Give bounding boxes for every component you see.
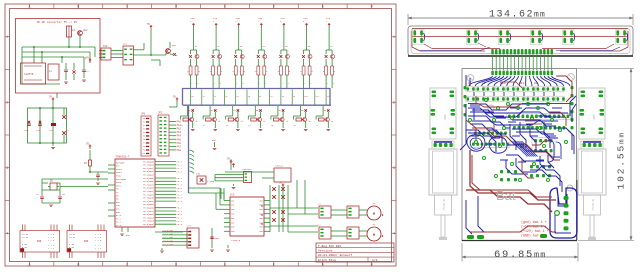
power wire mid top	[134, 23, 167, 56]
diode D10	[72, 63, 75, 80]
optocoupler OK1	[123, 43, 134, 66]
flyback diodes D11-D14	[270, 185, 288, 232]
svg-text:C12: C12	[49, 129, 54, 132]
svg-text:PWR: PWR	[84, 240, 89, 243]
svg-text:p5V: p5V	[172, 44, 177, 47]
connector JP3	[162, 225, 199, 249]
pin header JP2 with pads	[158, 112, 169, 157]
sensor channel LED7	[323, 18, 336, 88]
wires from JP2 to net labels	[169, 121, 181, 152]
svg-text:1k: 1k	[218, 121, 220, 123]
capacitor C30	[210, 228, 220, 251]
svg-text:1k: 1k	[241, 121, 243, 123]
svg-text:100n: 100n	[214, 237, 220, 240]
regulator IC U2	[21, 63, 46, 84]
svg-text:+LED: +LED	[235, 18, 239, 20]
battery connector loop	[550, 188, 577, 238]
IC1 bottom pins	[120, 227, 130, 237]
svg-text:L: L	[214, 83, 215, 85]
svg-text:(+12V) bat 1 +: (+12V) bat 1 +	[521, 229, 549, 233]
dimension 69.85mm	[462, 241, 634, 262]
sensor channel LED1	[187, 18, 200, 88]
svg-text:IC3: IC3	[230, 194, 235, 197]
svg-text:134.62: 134.62	[489, 10, 534, 21]
diode D1	[62, 108, 66, 119]
svg-text:OK1: OK1	[123, 43, 128, 46]
capacitor C10	[24, 121, 31, 132]
bus stub wire	[292, 90, 295, 105]
svg-text:IN2: IN2	[231, 221, 234, 224]
svg-text:7 7 C: 7 7 C	[95, 247, 102, 250]
left mid pad cluster	[472, 132, 509, 146]
svg-text:B2: B2	[234, 110, 236, 112]
svg-text:L: L	[237, 83, 238, 85]
right column pads	[571, 86, 574, 129]
svg-text:p5V: p5V	[85, 56, 90, 59]
wire pair lower	[219, 188, 224, 199]
silk outline left cluster	[470, 130, 510, 148]
driver transistor T5	[271, 106, 288, 131]
svg-text:Erich Styg: Erich Styg	[318, 258, 336, 262]
blue eye loop right	[489, 137, 507, 153]
capacitor bank loop	[28, 108, 67, 143]
svg-text:+LED: +LED	[190, 18, 194, 20]
svg-text:L: L	[191, 83, 192, 85]
mid pad row	[508, 115, 569, 119]
diode D20	[170, 53, 178, 57]
svg-text:L: L	[259, 83, 260, 85]
motor M1 sensor section	[430, 88, 456, 139]
svg-text:B1: B1	[211, 110, 213, 112]
inductor L1	[48, 64, 59, 80]
red mid staircase	[472, 121, 560, 160]
svg-text:P3.3: P3.3	[177, 223, 183, 226]
svg-text:PA4: PA4	[177, 135, 182, 138]
driver transistor T6	[294, 106, 311, 131]
sensor bar bottom pad row	[491, 49, 553, 55]
right mid blue hooks	[548, 140, 561, 162]
power symbol above cap bank	[39, 95, 54, 144]
svg-text:S2: S2	[214, 96, 216, 98]
reset circuit R1	[84, 142, 108, 173]
svg-text:S: S	[333, 83, 334, 85]
sensor pads group	[530, 29, 542, 45]
svg-text:PA5: PA5	[177, 138, 182, 141]
motor driver IC3	[224, 194, 270, 243]
left column pads	[464, 86, 467, 116]
svg-text:S: S	[243, 83, 244, 85]
driver transistor T2	[203, 106, 220, 131]
power symbol above JP2	[169, 95, 178, 107]
svg-text:T4: T4	[248, 125, 250, 127]
svg-text:S: S	[288, 83, 289, 85]
sensor channel LED5	[278, 18, 291, 88]
bus B1 horizontal upper	[183, 88, 331, 90]
driver transistor T4	[248, 106, 265, 131]
bus stub wire	[247, 90, 250, 105]
svg-text:T7: T7	[316, 125, 318, 127]
svg-text:B6: B6	[324, 110, 326, 112]
filter C31	[331, 227, 359, 239]
bus stub wire	[270, 90, 273, 105]
relay K1	[196, 173, 215, 185]
svg-text:C11: C11	[36, 129, 41, 132]
motor M2 gearbox	[584, 195, 601, 215]
motor M2	[359, 223, 383, 241]
motor connector X1	[318, 203, 331, 219]
svg-text:S12: S12	[327, 96, 330, 98]
svg-text:3: 3	[235, 21, 236, 23]
svg-text:S11: S11	[316, 96, 319, 98]
svg-text:S10: S10	[304, 96, 307, 98]
svg-text:L: L	[304, 83, 305, 85]
svg-text:S7: S7	[270, 96, 272, 98]
silk outline mid header	[507, 113, 571, 119]
wires to motor connectors	[270, 180, 318, 232]
svg-text:PA2: PA2	[177, 128, 182, 131]
svg-text:X10: X10	[103, 45, 108, 48]
svg-text:P4: P4	[143, 132, 145, 134]
power symbol near IC2	[227, 157, 232, 170]
svg-text:1k: 1k	[331, 121, 333, 123]
svg-text:1k: 1k	[263, 121, 265, 123]
svg-text:P1: P1	[143, 122, 145, 124]
svg-text:04-01-06Uhr Entwurf: 04-01-06Uhr Entwurf	[318, 253, 352, 257]
svg-text:6: 6	[303, 21, 304, 23]
bus stub wire	[191, 90, 194, 105]
bus stub wire	[281, 90, 284, 105]
svg-text:7: 7	[326, 21, 327, 23]
diagonal trace bundle	[512, 141, 538, 157]
ground inside DC-DC	[64, 80, 86, 83]
title block	[316, 243, 394, 262]
bus stub wire	[202, 90, 205, 105]
svg-text:p9V: p9V	[83, 29, 88, 32]
svg-text:T5: T5	[271, 125, 273, 127]
svg-text:PA8: PA8	[177, 149, 182, 152]
motor M1 connector row	[432, 141, 454, 149]
wires from bus drop to IC3	[189, 188, 225, 209]
crystal Q1	[48, 180, 59, 191]
motor M2 sensor section	[579, 88, 605, 139]
bus stub wire	[315, 90, 319, 105]
svg-text:B4: B4	[279, 110, 281, 112]
silk outlines upper components	[466, 86, 565, 102]
power symbol U4	[230, 161, 235, 168]
svg-text:P2: P2	[143, 125, 145, 127]
DC-DC converter box outline	[16, 19, 101, 94]
svg-text:TS80C51-T: TS80C51-T	[116, 156, 130, 159]
svg-text:Bat: Bat	[496, 188, 516, 203]
wires IC1 right to bus drop	[155, 231, 183, 233]
wire below DC-DC box	[56, 93, 58, 98]
svg-text:0-10mA: 0-10mA	[207, 180, 215, 183]
lower right dip pads	[530, 165, 551, 177]
svg-text:L293D-H: L293D-H	[231, 239, 241, 242]
mounting hole bottom-right	[567, 185, 573, 191]
svg-text:74HC4051: 74HC4051	[242, 168, 252, 171]
svg-text:P10: P10	[142, 153, 145, 155]
transistor Q10	[78, 29, 88, 35]
svg-text:+LED: +LED	[258, 18, 262, 20]
svg-text:PA7: PA7	[177, 145, 182, 148]
svg-text:4: 4	[258, 21, 259, 23]
driver transistor T7	[316, 106, 333, 131]
svg-text:R30: R30	[196, 173, 201, 176]
connector SV2	[67, 225, 107, 259]
silk text Bat	[496, 188, 516, 203]
bus right end elbow	[329, 88, 331, 105]
svg-text:7 7 C: 7 7 C	[48, 247, 55, 250]
mounting hole mid-left	[488, 105, 494, 111]
logic gate IC5	[225, 165, 291, 183]
battery via ring	[555, 211, 560, 216]
microcontroller IC1	[108, 156, 183, 228]
wire net inside DC-DC box	[22, 36, 95, 84]
ground below cap bank	[51, 143, 55, 149]
capacitor C20	[64, 63, 68, 80]
svg-text:S: S	[310, 83, 311, 85]
svg-text:S8: S8	[282, 96, 284, 98]
capacitor C11	[36, 121, 42, 132]
sensor channel LED3	[233, 18, 246, 88]
svg-text:1k: 1k	[196, 121, 198, 123]
ic pads center	[534, 139, 553, 152]
sensor channel LED2	[210, 18, 223, 88]
svg-text:P1.4 DAT: P1.4 DAT	[164, 243, 174, 246]
frame column letters	[5, 4, 396, 266]
svg-text:(GND) bat 2 +: (GND) bat 2 +	[521, 234, 547, 238]
svg-text:PA0: PA0	[177, 121, 182, 124]
bottom left pads	[467, 235, 484, 239]
vias	[469, 99, 568, 182]
svg-text:L: L	[327, 83, 328, 85]
battery wiring labels	[521, 220, 549, 238]
ground below U4	[232, 184, 236, 189]
ground at JP3	[160, 248, 164, 252]
svg-text:B3: B3	[256, 110, 258, 112]
fuse F1	[67, 26, 76, 37]
svg-text:23 BP: 23 BP	[69, 236, 76, 239]
svg-text:1/1: 1/1	[372, 258, 378, 262]
power label p5V	[85, 56, 92, 63]
svg-text:T-Bug.Sch EDL: T-Bug.Sch EDL	[318, 244, 342, 248]
svg-text:+LED: +LED	[213, 18, 217, 20]
schematic frame inner border	[10, 9, 392, 262]
upper component pads row 2	[467, 97, 565, 100]
svg-text:C10: C10	[24, 129, 29, 132]
svg-text:S3: S3	[225, 96, 227, 98]
svg-text:S: S	[197, 83, 198, 85]
bottom copper traces	[460, 75, 576, 234]
svg-text:S9: S9	[293, 96, 295, 98]
mid pad row 2	[513, 126, 565, 130]
svg-text:69.85: 69.85	[494, 249, 534, 261]
component labels silk row	[468, 82, 538, 85]
svg-text:JP3: JP3	[187, 225, 192, 228]
svg-text:T2: T2	[203, 125, 205, 127]
svg-text:DC-DC converter 5V -> 9V: DC-DC converter 5V -> 9V	[37, 20, 78, 24]
svg-text:P9: P9	[143, 150, 145, 152]
dimension 102.55mm	[577, 69, 634, 241]
sensor bar traces	[412, 29, 628, 52]
svg-text:P0: P0	[143, 118, 145, 120]
sensor pads group	[498, 29, 510, 45]
upper component pads row 1	[467, 87, 565, 90]
bus stub wire	[224, 90, 227, 105]
svg-text:GM8: GM8	[443, 114, 446, 119]
svg-text:+LED: +LED	[280, 18, 284, 20]
connector SV1	[20, 225, 60, 259]
driver transistor T1	[181, 106, 198, 131]
svg-text:S6: S6	[259, 96, 261, 98]
bus stub wire	[236, 90, 239, 105]
main board top pad row	[491, 71, 553, 76]
svg-text:mm: mm	[534, 11, 546, 20]
svg-text:PA3: PA3	[177, 131, 182, 134]
svg-text:1k: 1k	[309, 121, 311, 123]
bus B2 horizontal lower	[183, 104, 332, 106]
svg-text:B0: B0	[188, 110, 190, 112]
motor M1 body	[429, 149, 457, 195]
capacitor C5	[58, 190, 65, 203]
ground top middle	[212, 139, 216, 150]
svg-text:23 BP: 23 BP	[22, 236, 29, 239]
sensor pads group	[466, 29, 478, 45]
bottom mid pads	[540, 234, 547, 238]
DC-DC output connector X10	[99, 45, 111, 60]
mounting hole top-right	[568, 74, 575, 81]
capacitor C21	[82, 66, 89, 78]
sensor pads group	[412, 29, 424, 45]
svg-text:+LED: +LED	[326, 18, 330, 20]
svg-text:T3: T3	[226, 125, 228, 127]
sensor pads group	[615, 29, 627, 45]
svg-text:JP2: JP2	[158, 112, 163, 115]
svg-text:P8: P8	[143, 146, 145, 148]
svg-text:1: 1	[190, 21, 191, 23]
svg-text:JP1: JP1	[141, 113, 146, 116]
crystal wires	[42, 179, 108, 206]
svg-text:IN2: IN2	[231, 204, 234, 207]
sensor channel LED6	[300, 18, 313, 88]
short bottom-layer links	[470, 92, 562, 162]
motor M1 gearbox	[435, 195, 452, 215]
battery pads	[564, 196, 569, 230]
filter C30	[331, 206, 359, 218]
motor M2 body	[578, 149, 606, 195]
bus B1 left elbow	[182, 88, 184, 105]
wire to sensor area	[151, 60, 160, 66]
transistor T20	[166, 42, 177, 55]
diode D2	[62, 129, 69, 143]
top copper traces	[466, 76, 572, 232]
svg-text:P6: P6	[143, 139, 145, 141]
svg-text:B5: B5	[301, 110, 303, 112]
svg-text:P0.3(AD3): P0.3(AD3)	[143, 223, 154, 226]
blue eye loop left	[467, 135, 485, 151]
svg-text:PWR: PWR	[37, 240, 42, 243]
svg-text:DC Motor: DC Motor	[591, 199, 594, 212]
motor M2 shaft	[588, 215, 596, 240]
svg-text:1k: 1k	[286, 121, 288, 123]
sensor channel LED4	[255, 18, 268, 88]
bus stub wire	[326, 90, 330, 105]
bus stub wire	[258, 90, 261, 105]
wires bar to main board	[493, 55, 552, 70]
svg-text:P7: P7	[143, 143, 145, 145]
svg-text:+LED: +LED	[303, 18, 307, 20]
motor M1	[359, 202, 383, 220]
ground near C30	[226, 245, 230, 251]
svg-text:S5: S5	[248, 96, 250, 98]
schematic frame outer border	[5, 4, 396, 266]
svg-text:(gnd) bat 1 +: (gnd) bat 1 +	[521, 220, 547, 224]
svg-text:2 2 B: 2 2 B	[95, 239, 102, 242]
silk outline ic center	[532, 138, 555, 156]
svg-text:P4.0: P4.0	[177, 200, 183, 203]
svg-text:5: 5	[280, 21, 281, 23]
capacitor C12	[49, 123, 56, 132]
power symbol above diodes	[279, 181, 284, 188]
svg-text:S1: S1	[203, 96, 205, 98]
svg-text:PA6: PA6	[177, 142, 182, 145]
svg-text:GM8: GM8	[592, 114, 595, 119]
sensor pads group	[562, 29, 574, 45]
svg-text:2 2 B: 2 2 B	[48, 239, 55, 242]
motor M2 connector row	[581, 141, 603, 149]
motor connector X2	[318, 224, 331, 240]
flyback diodes D15-D18	[272, 210, 285, 222]
wires X10 to OK1	[111, 51, 123, 58]
bus stub wire	[213, 90, 216, 105]
main board outline	[462, 69, 577, 241]
svg-text:P1.3: P1.3	[116, 224, 122, 227]
lower mid pads	[500, 170, 517, 181]
dimension 134.62mm	[408, 10, 633, 26]
capacitor C4	[36, 190, 44, 203]
mux connector U4	[215, 168, 252, 183]
svg-text:S: S	[220, 83, 221, 85]
bus vertical drop to IC area	[188, 105, 190, 193]
sensor bar board outline	[408, 26, 633, 56]
bus stub hooks	[190, 150, 195, 174]
pin header JP1	[141, 113, 151, 157]
svg-text:lm2576: lm2576	[24, 72, 34, 76]
driver transistor T3	[226, 106, 243, 131]
svg-text:Versions: Versions	[318, 249, 333, 253]
svg-text:P3: P3	[143, 129, 145, 131]
svg-text:P3.3: P3.3	[177, 170, 183, 173]
svg-text:L: L	[282, 83, 283, 85]
svg-text:74HC14: 74HC14	[275, 165, 284, 168]
svg-text:T6: T6	[294, 125, 296, 127]
bus stub wire	[304, 90, 308, 105]
svg-text:DC Motor: DC Motor	[442, 199, 445, 212]
svg-text:mm: mm	[534, 250, 547, 260]
svg-text:S: S	[265, 83, 266, 85]
svg-text:(+5V) bat 1 +: (+5V) bat 1 +	[521, 225, 547, 229]
svg-text:S0: S0	[191, 96, 193, 98]
svg-text:S4: S4	[237, 96, 239, 98]
svg-text:T1: T1	[181, 125, 183, 127]
mounting hole top-left	[467, 75, 474, 82]
svg-text:P5: P5	[143, 136, 145, 138]
capacitor C3	[96, 172, 100, 184]
motor M1 shaft	[439, 215, 447, 240]
svg-text:2: 2	[213, 21, 214, 23]
